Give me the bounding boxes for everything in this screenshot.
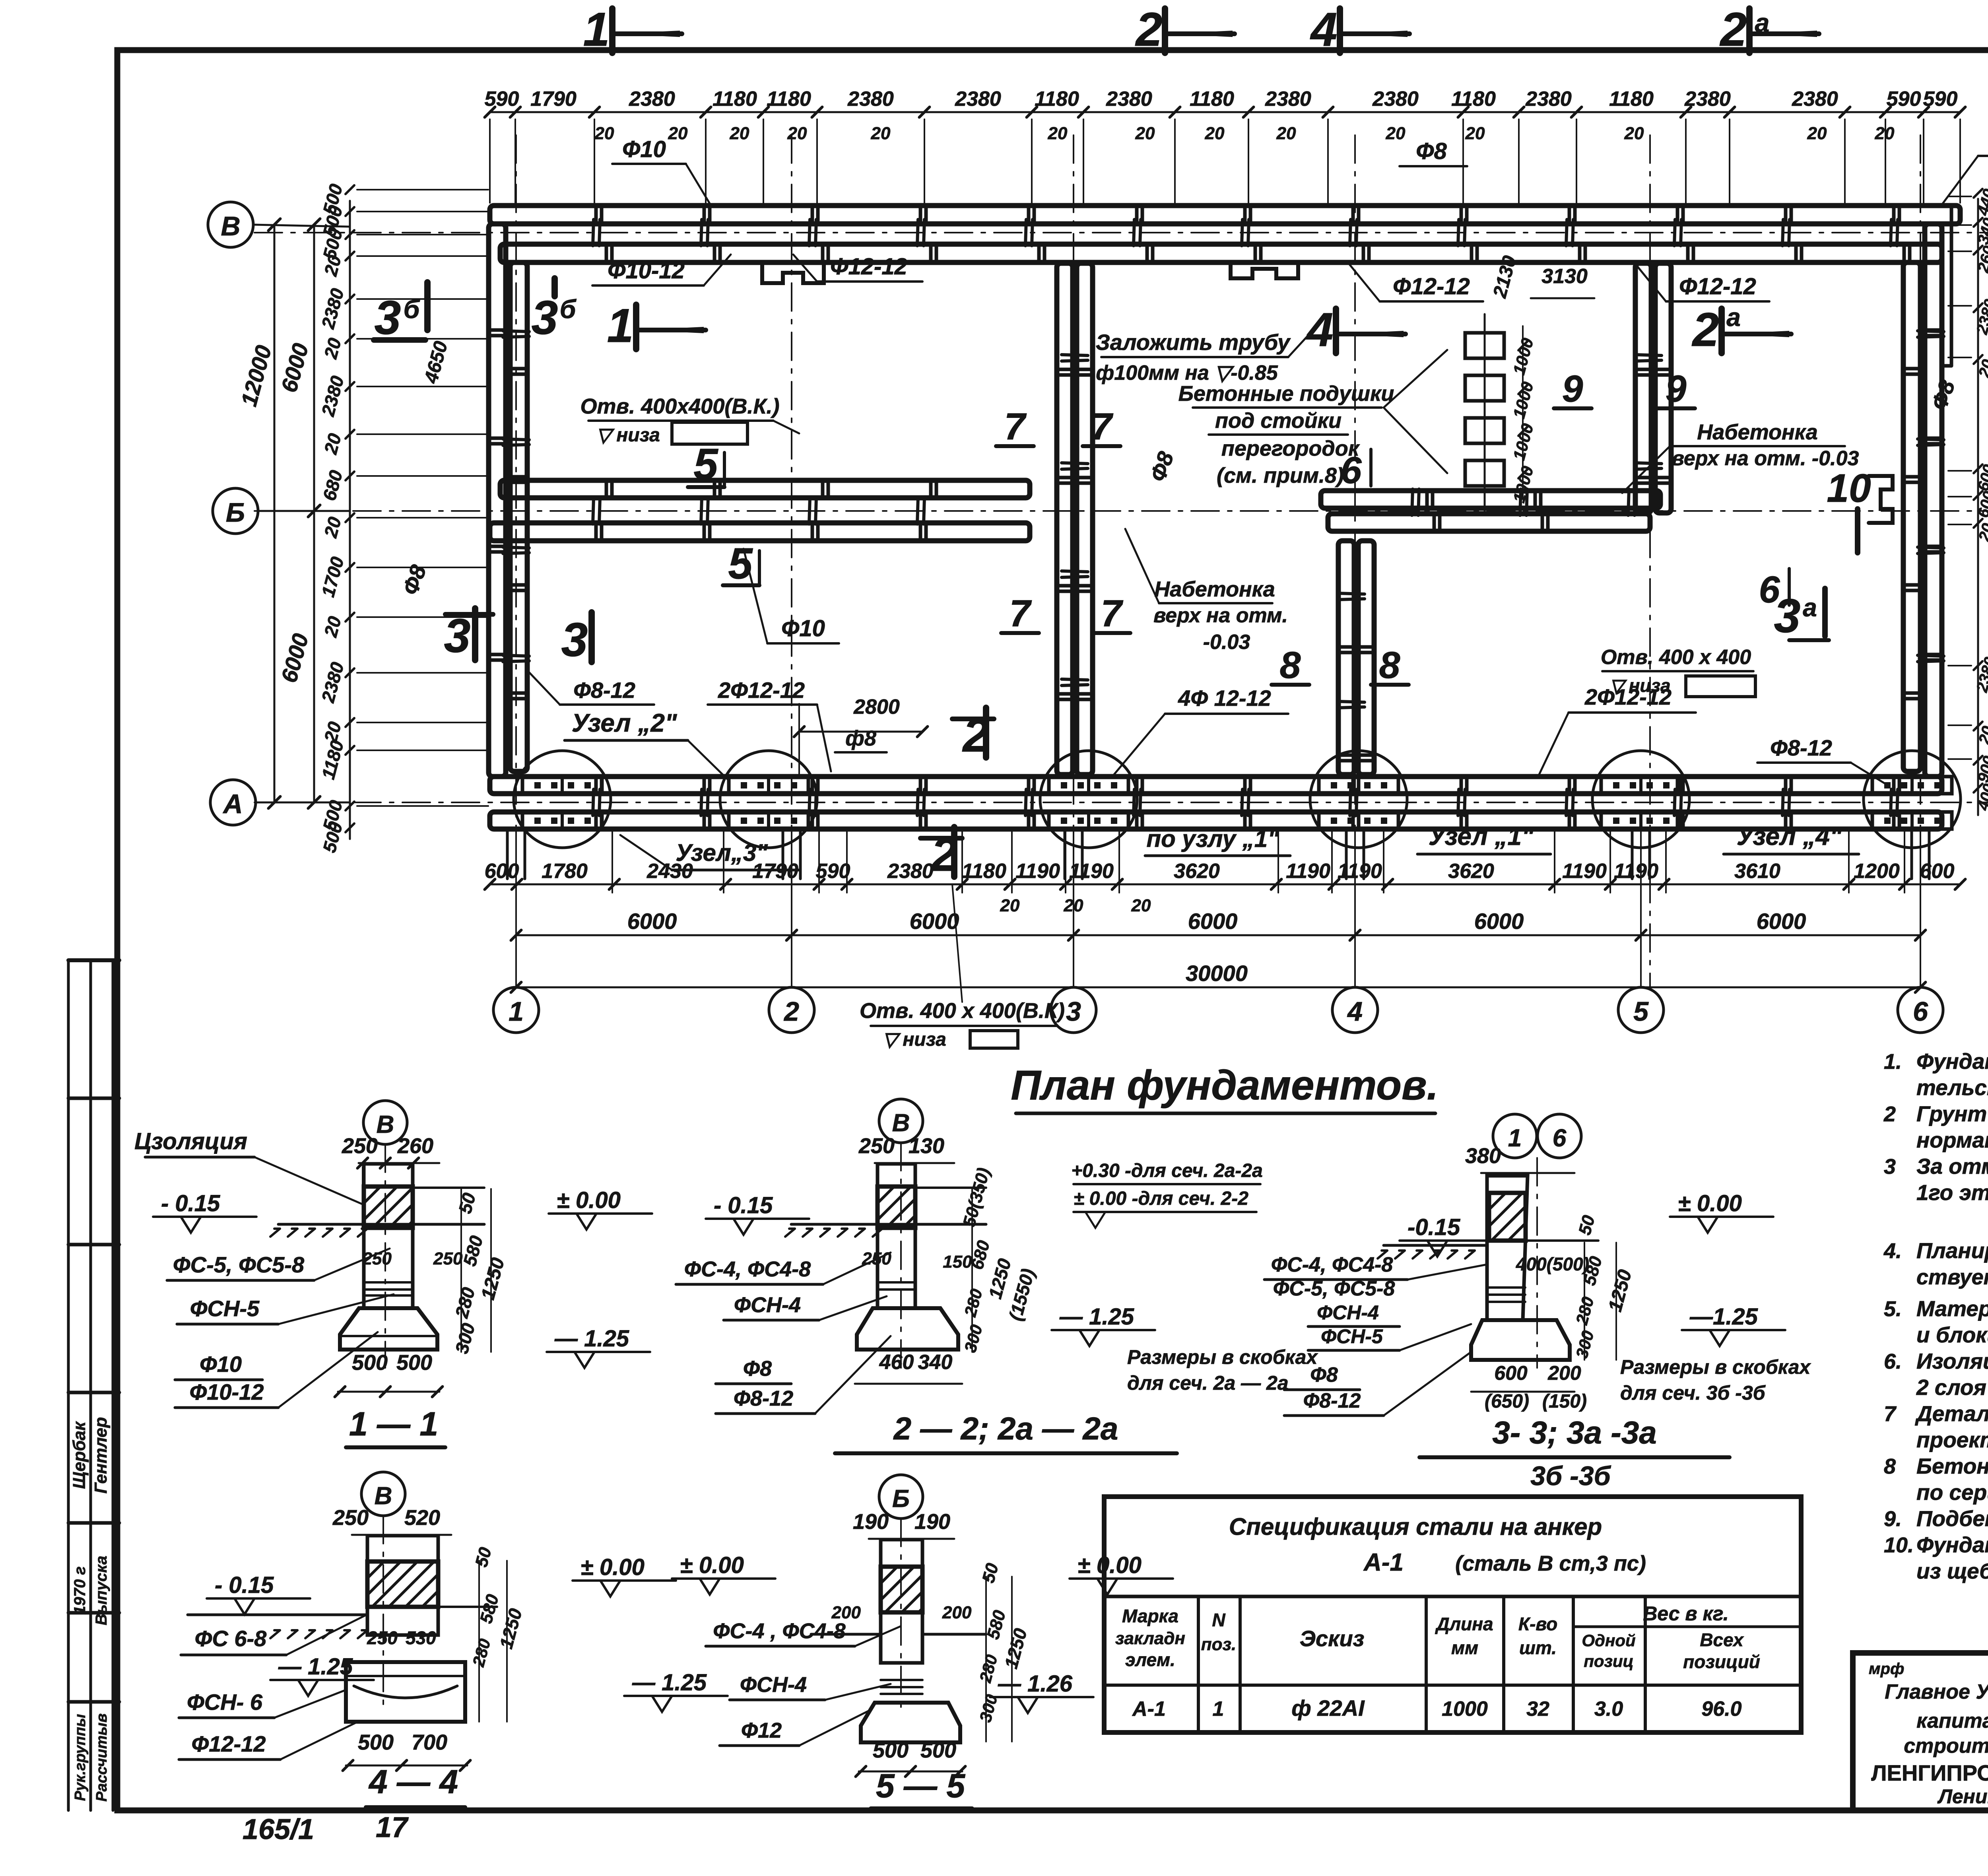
svg-text:500: 500 [873, 1738, 909, 1762]
svg-text:1790: 1790 [530, 87, 577, 111]
svg-text:6000: 6000 [627, 909, 677, 934]
svg-text:мм: мм [1451, 1637, 1478, 1658]
node detail circle at axis A #1a [1040, 751, 1137, 848]
svg-text:мрф: мрф [1869, 1660, 1904, 1678]
svg-text:+0.30 -для сеч. 2а-2а: +0.30 -для сеч. 2а-2а [1071, 1160, 1263, 1181]
svg-text:1.: 1. [1884, 1050, 1902, 1074]
svg-text:± 0.00 -для сеч. 2-2: ± 0.00 -для сеч. 2-2 [1074, 1188, 1248, 1209]
svg-text:3- 3; 3а -3а: 3- 3; 3а -3а [1492, 1415, 1657, 1450]
svg-text:из щебня втрамбованного в гру: из щебня втрамбованного в грунт толщ. 10… [1916, 1559, 1988, 1583]
svg-text:500: 500 [358, 1730, 394, 1754]
concrete pads under partition posts [1465, 333, 1504, 358]
svg-text:600: 600 [1920, 860, 1955, 883]
svg-text:500: 500 [396, 1351, 432, 1375]
svg-text:ФС-4, ФС4-8: ФС-4, ФС4-8 [1271, 1253, 1393, 1276]
svg-text:700: 700 [412, 1730, 447, 1754]
svg-text:20: 20 [730, 124, 749, 143]
svg-text:2: 2 [1883, 1102, 1896, 1126]
svg-text:400(500): 400(500) [1516, 1254, 1589, 1274]
svg-text:ФСН-4: ФСН-4 [740, 1673, 807, 1697]
svg-text:- 0.15: - 0.15 [161, 1190, 220, 1216]
svg-text:6000: 6000 [1757, 909, 1806, 934]
svg-text:Ф8-12: Ф8-12 [1770, 735, 1832, 760]
svg-text:1: 1 [607, 299, 634, 352]
svg-text:позиц: позиц [1584, 1652, 1634, 1670]
svg-text:Рассчитыв: Рассчитыв [93, 1713, 110, 1802]
svg-text:5.: 5. [1884, 1297, 1902, 1321]
section 3-3 column [1487, 1176, 1528, 1320]
svg-text:30000: 30000 [1186, 961, 1248, 986]
svg-text:1190: 1190 [1015, 860, 1060, 883]
svg-text:ф 22АI: ф 22АI [1291, 1695, 1365, 1721]
svg-text:1го этажа, соответствующий аб: 1го этажа, соответствующий абсолютной от… [1916, 1180, 1988, 1205]
svg-text:20: 20 [594, 124, 614, 143]
svg-text:А: А [222, 789, 243, 819]
svg-text:2: 2 [1692, 303, 1719, 356]
svg-text:1180: 1180 [712, 87, 757, 111]
svg-text:1970 г: 1970 г [71, 1566, 89, 1614]
axis circle А [210, 780, 256, 825]
right dimension chain [1977, 199, 1979, 815]
svg-text:4: 4 [1310, 3, 1338, 56]
svg-text:Ф12-12: Ф12-12 [830, 254, 907, 280]
svg-text:2Ф12-12: 2Ф12-12 [718, 678, 805, 703]
svg-text:200: 200 [942, 1603, 972, 1622]
wall band along axis В (top outer wall) upper block row [490, 206, 1960, 224]
node detail circle at axis A #2 [720, 751, 817, 848]
svg-text:165/1: 165/1 [243, 1814, 314, 1845]
svg-text:250: 250 [332, 1506, 369, 1530]
svg-text:Вес в кг.: Вес в кг. [1643, 1602, 1729, 1625]
svg-text:Гентлер: Гентлер [91, 1417, 111, 1494]
section 1-1 block joints [364, 1281, 413, 1284]
svg-text:Спецификация стали на анкер: Спецификация стали на анкер [1229, 1513, 1602, 1540]
svg-text:6: 6 [1759, 569, 1780, 611]
svg-text:3620: 3620 [1174, 860, 1220, 883]
section 3-3 block joints [1487, 1286, 1525, 1289]
svg-text:7: 7 [1010, 592, 1032, 635]
svg-text:капитального: капитального [1916, 1709, 1988, 1732]
svg-text:96.0: 96.0 [1701, 1697, 1741, 1721]
svg-text:1190: 1190 [1614, 860, 1658, 883]
svg-text:200: 200 [1547, 1362, 1581, 1384]
svg-text:590: 590 [816, 860, 850, 883]
svg-text:Ленинград: Ленинград [1937, 1785, 1988, 1808]
svg-text:1180: 1180 [1609, 87, 1654, 111]
wall band along axis Б right segment upper row [1321, 491, 1660, 508]
svg-text:3: 3 [561, 613, 588, 666]
svg-text:7: 7 [1101, 592, 1124, 635]
svg-text:200: 200 [831, 1603, 861, 1622]
section 2-2 footing [857, 1308, 958, 1350]
svg-text:8: 8 [1884, 1455, 1896, 1478]
bottom witness lines [515, 829, 517, 987]
extra witness lines below A wall [612, 829, 613, 893]
section 5-5 axis circle Б [879, 1475, 923, 1519]
svg-text:1180: 1180 [767, 87, 811, 111]
svg-text:ф8: ф8 [845, 726, 876, 750]
svg-text:7: 7 [1004, 406, 1027, 448]
section 5-5 footing [861, 1703, 960, 1742]
left dimension chain 12000 [274, 225, 276, 802]
svg-text:± 0.00: ± 0.00 [580, 1554, 645, 1580]
svg-text:6000: 6000 [1474, 909, 1524, 934]
svg-text:± 0.00: ± 0.00 [1077, 1552, 1142, 1578]
svg-text:Отв. 400 х 400: Отв. 400 х 400 [1601, 646, 1751, 669]
svg-text:Набетонка: Набетонка [1697, 420, 1817, 444]
svg-text:17: 17 [376, 1812, 409, 1843]
wall band along axis 3 right row [1077, 263, 1093, 775]
svg-text:20: 20 [787, 124, 807, 143]
svg-text:Ф10-12: Ф10-12 [608, 258, 685, 284]
svg-text:ФСН-4: ФСН-4 [1317, 1301, 1379, 1324]
svg-text:2: 2 [1720, 3, 1747, 56]
top dimension ticks [485, 107, 495, 117]
joints on axis В wall [593, 219, 594, 246]
svg-text:-0.15: -0.15 [1408, 1214, 1460, 1240]
wall stubs below axis А wall [506, 829, 509, 879]
svg-text:Изоляция по обрезу фундамен: Изоляция по обрезу фундаментов на отм.-0… [1916, 1349, 1988, 1373]
svg-text:20: 20 [1205, 124, 1225, 143]
svg-text:150: 150 [943, 1252, 972, 1272]
svg-text:В: В [892, 1109, 910, 1137]
axis circle 6 [1898, 987, 1943, 1033]
svg-text:А-1: А-1 [1132, 1697, 1166, 1721]
bottom dimension chain 1 [490, 884, 1960, 886]
svg-text:▽ низа: ▽ низа [883, 1029, 946, 1050]
svg-text:190: 190 [914, 1510, 950, 1534]
svg-text:для сеч. 3б -3б: для сеч. 3б -3б [1620, 1382, 1766, 1404]
svg-text:3б -3б: 3б -3б [1530, 1461, 1611, 1491]
svg-text:20: 20 [1465, 124, 1485, 143]
svg-text:20: 20 [1135, 124, 1155, 143]
svg-text:4 — 4: 4 — 4 [368, 1763, 458, 1800]
svg-text:ЛЕНГИПРОРЕЧТРАНС: ЛЕНГИПРОРЕЧТРАНС [1871, 1760, 1988, 1785]
bottom dimension chain 6000s [516, 934, 1920, 936]
svg-text:250: 250 [862, 1249, 891, 1268]
node detail circle at axis A #3 [514, 751, 611, 848]
svg-text:элем.: элем. [1125, 1649, 1175, 1670]
svg-text:Ф8: Ф8 [743, 1357, 772, 1381]
axis line 5 [1649, 135, 1651, 987]
svg-text:Фундаментные блоки укладыват: Фундаментные блоки укладывать на подгото… [1916, 1532, 1988, 1557]
section 4-4 axis circle В [361, 1472, 405, 1516]
wall band along axis А (bottom outer wall) upper row [490, 777, 1942, 794]
svg-text:А-1: А-1 [1363, 1549, 1404, 1576]
svg-text:N: N [1212, 1610, 1225, 1630]
svg-text:— 1.25: — 1.25 [632, 1670, 707, 1695]
svg-text:20: 20 [668, 124, 688, 143]
svg-text:- 0.15: - 0.15 [714, 1192, 773, 1218]
svg-text:Выпуска: Выпуска [93, 1556, 110, 1625]
svg-text:1190: 1190 [1562, 860, 1607, 883]
svg-text:План фундаментов.: План фундаментов. [1011, 1062, 1438, 1109]
axis circle В [208, 202, 253, 247]
svg-text:Ф8-12: Ф8-12 [573, 678, 635, 703]
svg-text:± 0.00: ± 0.00 [557, 1187, 621, 1213]
svg-text:проекты серии ПР-05-36.2 и: проекты серии ПР-05-36.2 и ПР-05-36.4. [1916, 1427, 1988, 1452]
svg-text:3610: 3610 [1734, 860, 1780, 883]
svg-text:Фундаменты запроектированы д: Фундаменты запроектированы для условия с… [1916, 1049, 1988, 1074]
svg-text:260: 260 [397, 1134, 433, 1158]
svg-text:20: 20 [1875, 124, 1895, 143]
svg-text:Главное Управление: Главное Управление [1885, 1680, 1988, 1703]
wall band along axis 6 (right outer wall) inner row [1903, 262, 1920, 771]
svg-text:ФСН-5: ФСН-5 [1321, 1325, 1383, 1348]
wall band along axis 5 (internal wall В-Б) [1635, 263, 1651, 513]
svg-text:8: 8 [1280, 644, 1301, 686]
wall band along axis 1 (left outer wall) outer row [489, 224, 506, 777]
section 3-3 axis circles 1 and 6 [1493, 1114, 1537, 1158]
svg-text:Отв. 400х400(В.К.): Отв. 400х400(В.К.) [580, 394, 779, 418]
svg-text:В: В [375, 1482, 392, 1510]
svg-text:20: 20 [1048, 124, 1068, 143]
svg-text:380: 380 [1465, 1144, 1501, 1168]
svg-text:1: 1 [509, 996, 524, 1027]
svg-text:2380: 2380 [1792, 87, 1838, 111]
svg-text:Цзоляция: Цзоляция [134, 1128, 247, 1154]
axis line А [254, 802, 1988, 803]
svg-text:8: 8 [1379, 644, 1400, 686]
section 2-2 axis circle В [879, 1099, 923, 1143]
svg-text:а: а [1726, 303, 1741, 332]
svg-text:Грунт основания - сухие непу: Грунт основания - сухие непучинистые гру… [1916, 1101, 1988, 1126]
svg-text:2380: 2380 [1525, 87, 1572, 111]
svg-text:Узел „2": Узел „2" [572, 709, 677, 737]
svg-text:— 1.25: — 1.25 [1059, 1304, 1134, 1330]
svg-text:2380: 2380 [955, 87, 1001, 111]
svg-text:20: 20 [1276, 124, 1296, 143]
svg-text:250: 250 [433, 1249, 463, 1268]
axis line 6 [1920, 135, 1921, 987]
svg-text:1180: 1180 [1035, 87, 1079, 111]
svg-text:9: 9 [1562, 368, 1583, 410]
svg-text:ф100мм на ▽-0.85: ф100мм на ▽-0.85 [1096, 361, 1278, 385]
svg-text:10: 10 [1827, 466, 1871, 511]
svg-text:В: В [377, 1111, 394, 1138]
svg-text:и блоки стен подвала-серия: и блоки стен подвала-серия 1,112-1 и 1,1… [1916, 1323, 1988, 1347]
svg-text:1: 1 [583, 3, 610, 56]
svg-text:5: 5 [1633, 996, 1649, 1027]
svg-text:Ф12-12: Ф12-12 [192, 1731, 266, 1756]
svg-text:6: 6 [1553, 1124, 1567, 1152]
axis circle 1 [493, 987, 539, 1033]
svg-text:Эскиз: Эскиз [1300, 1626, 1365, 1651]
section 1-1 insulation hatch block [364, 1187, 413, 1228]
svg-text:строительства: строительства [1904, 1734, 1988, 1758]
svg-text:Одной: Одной [1582, 1631, 1635, 1650]
svg-text:1: 1 [1213, 1697, 1224, 1721]
svg-text:▽ низа: ▽ низа [1609, 675, 1670, 696]
wall band along axis 1 inner row [510, 262, 527, 771]
svg-text:3130: 3130 [1541, 265, 1588, 288]
svg-text:600: 600 [485, 860, 519, 883]
svg-text:2380: 2380 [1372, 87, 1419, 111]
svg-text:460: 460 [879, 1351, 914, 1374]
svg-text:а: а [1803, 593, 1817, 622]
section 3-3 footing [1471, 1320, 1570, 1360]
svg-text:9: 9 [1666, 368, 1687, 410]
svg-text:6: 6 [1913, 996, 1928, 1027]
doorway notch block Ф12-12 on top wall [762, 262, 824, 283]
svg-text:250: 250 [342, 1134, 378, 1158]
svg-text:1: 1 [1508, 1124, 1522, 1152]
svg-text:1190: 1190 [1338, 860, 1382, 883]
svg-text:20: 20 [1386, 124, 1406, 143]
wall band along axis В lower block row [500, 244, 1942, 262]
left dimension chain 6000+6000 [313, 225, 315, 802]
svg-text:верх на отм. -0.03: верх на отм. -0.03 [1672, 447, 1859, 470]
svg-text:Ф12-12: Ф12-12 [1679, 274, 1756, 299]
svg-text:2380: 2380 [847, 87, 894, 111]
left detailed dimension chain [349, 201, 351, 839]
wall band along axis 3 (internal wall) left row [1057, 263, 1073, 775]
svg-text:▽ низа: ▽ низа [596, 425, 660, 446]
left witness lines [357, 189, 488, 190]
svg-text:20: 20 [1624, 124, 1644, 143]
svg-text:перегородок: перегородок [1221, 437, 1360, 460]
wall band along axis А lower row [490, 812, 1942, 829]
svg-text:2380: 2380 [1106, 87, 1152, 111]
svg-text:За отметку ±0.00 принят ур: За отметку ±0.00 принят уровень чистого … [1916, 1154, 1988, 1179]
wall band along axis Б left segment upper row [500, 480, 1030, 498]
svg-text:5: 5 [728, 539, 753, 588]
svg-text:позиций: позиций [1683, 1651, 1760, 1672]
section 2-2 column [878, 1164, 915, 1308]
svg-text:закладн: закладн [1115, 1629, 1185, 1648]
svg-text:1200: 1200 [1854, 860, 1900, 883]
svg-text:2 — 2; 2а — 2а: 2 — 2; 2а — 2а [893, 1411, 1118, 1446]
svg-text:6.: 6. [1884, 1350, 1902, 1373]
svg-text:Узел „1": Узел „1" [1429, 822, 1534, 851]
svg-text:Заложить трубу: Заложить трубу [1096, 330, 1291, 355]
axis line В [254, 232, 1988, 233]
svg-text:2 слоя толя на толевой кле: 2 слоя толя на толевой клебемассе [1916, 1375, 1988, 1400]
svg-text:Рук.группы: Рук.группы [72, 1714, 89, 1801]
svg-text:по серии Г-903-53л. 68,69.: по серии Г-903-53л. 68,69. [1916, 1480, 1988, 1505]
svg-text:Всех: Всех [1700, 1629, 1744, 1650]
node detail circle at axis A #4 [1864, 751, 1961, 848]
svg-text:Щербак: Щербак [70, 1421, 89, 1489]
svg-text:(см. прим.8): (см. прим.8) [1217, 464, 1344, 487]
svg-text:нормативным давлением Rн = 1: нормативным давлением Rн = 1,5кг/см² [1916, 1128, 1988, 1152]
svg-text:20: 20 [1807, 124, 1827, 143]
svg-text:по узлу „1": по узлу „1" [1146, 825, 1279, 852]
svg-text:590: 590 [485, 87, 519, 111]
svg-text:20: 20 [871, 124, 891, 143]
svg-text:(150): (150) [1542, 1391, 1587, 1412]
svg-text:3: 3 [1066, 996, 1081, 1027]
svg-text:6000: 6000 [910, 909, 959, 934]
axis circle 2 [769, 987, 814, 1033]
wall band along axis Б right segment lower row [1328, 514, 1650, 531]
section 4-4 footing (block ФСН-6) [346, 1662, 465, 1722]
svg-text:Ф10: Ф10 [622, 136, 666, 162]
svg-text:2800: 2800 [853, 695, 900, 719]
svg-text:4.: 4. [1883, 1239, 1902, 1263]
svg-text:20: 20 [1131, 896, 1151, 915]
svg-text:ствует абсолютной отметке: ствует абсолютной отметке [1916, 1265, 1988, 1289]
svg-text:Деталь установки рамы ворот: Деталь установки рамы ворот см. типовые [1915, 1401, 1988, 1426]
top dimension chain line [490, 111, 1960, 113]
axis circle 4 [1332, 987, 1378, 1033]
svg-text:6000: 6000 [1188, 909, 1238, 934]
svg-text:250: 250 [367, 1627, 398, 1648]
axis circle Б [213, 488, 258, 534]
svg-text:—1.25: —1.25 [1689, 1304, 1758, 1330]
svg-text:ФС-5, ФС5-8: ФС-5, ФС5-8 [173, 1252, 305, 1277]
top dimension witness lines [489, 119, 491, 203]
section 1-1 column [364, 1164, 413, 1308]
svg-text:ФС-4, ФС4-8: ФС-4, ФС4-8 [684, 1257, 811, 1281]
svg-text:2: 2 [1135, 3, 1163, 56]
svg-text:250: 250 [858, 1134, 895, 1158]
svg-text:В: В [221, 211, 240, 241]
svg-text:б: б [560, 294, 577, 324]
svg-text:ФСН-4: ФСН-4 [734, 1293, 801, 1317]
svg-text:9.: 9. [1884, 1507, 1902, 1531]
svg-text:Ф8-12: Ф8-12 [1303, 1389, 1361, 1412]
svg-text:Ф12: Ф12 [741, 1719, 782, 1742]
svg-text:600: 600 [1494, 1362, 1528, 1384]
svg-text:тельства при t= -20° и - 30° и: тельства при t= -20° и - 30° и весе снег… [1916, 1075, 1988, 1100]
svg-text:10.: 10. [1884, 1533, 1914, 1557]
svg-text:5 — 5: 5 — 5 [876, 1767, 965, 1804]
section 1-1 footing [340, 1308, 437, 1350]
section 5-5 column [881, 1540, 922, 1663]
wall band along axis 6 outer row [1925, 224, 1942, 777]
svg-text:340: 340 [918, 1351, 953, 1374]
left stamp strip [67, 960, 70, 1810]
svg-text:а: а [1755, 8, 1770, 37]
svg-text:— 1.25: — 1.25 [278, 1654, 353, 1680]
bottom dimension chain 30000 [516, 987, 1920, 988]
svg-text:Ф10: Ф10 [781, 616, 825, 641]
svg-text:500: 500 [352, 1351, 388, 1375]
node detail circle at axis A #1 [1310, 751, 1407, 848]
svg-text:530: 530 [406, 1627, 436, 1648]
svg-text:Ф10: Ф10 [200, 1352, 242, 1377]
svg-text:Длина: Длина [1435, 1614, 1493, 1634]
wall band along axis 4 (internal wall Б-А) [1338, 541, 1354, 775]
svg-text:шт.: шт. [1519, 1637, 1557, 1658]
svg-text:Б: Б [226, 497, 245, 528]
svg-text:Размеры в скобках: Размеры в скобках [1127, 1346, 1318, 1368]
svg-text:ФС-4 , ФС4-8: ФС-4 , ФС4-8 [713, 1619, 845, 1643]
svg-text:3.0: 3.0 [1594, 1697, 1623, 1721]
svg-text:К-во: К-во [1518, 1614, 1557, 1634]
title block [1853, 1653, 1988, 1810]
svg-text:6: 6 [1341, 449, 1362, 491]
svg-text:под стойки: под стойки [1215, 409, 1342, 433]
axis line Б [254, 510, 1988, 512]
svg-text:2: 2 [783, 996, 799, 1027]
svg-text:1190: 1190 [1069, 860, 1114, 883]
svg-text:190: 190 [853, 1510, 889, 1534]
svg-text:Подбетонки по месту выполня: Подбетонки по месту выполнять из бетона … [1916, 1506, 1988, 1531]
axis line 2 [791, 135, 792, 987]
node detail circle at axis A #1b [1592, 751, 1689, 848]
svg-text:5: 5 [693, 440, 718, 489]
svg-text:Бетонные подушки: Бетонные подушки [1178, 382, 1394, 406]
svg-text:4Ф 12-12: 4Ф 12-12 [1178, 686, 1271, 711]
section 5-5 block joints [881, 1679, 922, 1681]
wall band along axis Б left segment lower row [490, 523, 1030, 541]
svg-text:Марка: Марка [1122, 1606, 1178, 1626]
svg-text:4: 4 [1306, 303, 1334, 356]
svg-text:поз.: поз. [1201, 1635, 1236, 1654]
svg-text:32: 32 [1526, 1697, 1549, 1721]
